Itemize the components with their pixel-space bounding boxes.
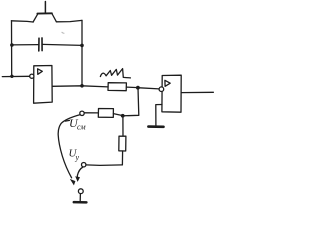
svg-text:см: см [77,123,86,132]
svg-text:у: у [75,153,80,162]
